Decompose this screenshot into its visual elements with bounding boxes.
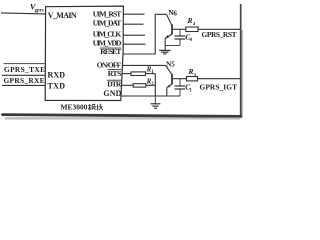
resistor R3 — [187, 77, 198, 81]
svg-text:UIM_RST: UIM_RST — [93, 10, 122, 19]
svg-text:V_MAIN: V_MAIN — [48, 11, 77, 20]
label R2 — [146, 77, 155, 87]
resistor R4 — [186, 27, 198, 32]
wire R4 to GPRS_RST — [198, 28, 241, 30]
ground (module GND) — [151, 96, 161, 108]
wire N6 base to R4 — [173, 28, 186, 30]
ground (N6 emitter) — [159, 50, 170, 54]
label R1 — [146, 66, 155, 76]
wire pulldown node vertical — [154, 74, 156, 96]
wire R2 to pulldown node — [146, 84, 156, 86]
wire R1 to base node — [146, 73, 156, 75]
svg-text:R: R — [187, 16, 193, 25]
wire overline GPRS_TXE — [4, 63, 46, 65]
wire V_gprs to module — [1, 13, 46, 14]
svg-text:R: R — [188, 67, 194, 76]
hanzi kuai (block) — [96, 104, 103, 111]
capacitor C4 — [165, 29, 185, 45]
svg-text:RXD: RXD — [48, 70, 66, 79]
svg-text:gprs: gprs — [35, 8, 44, 13]
transistor N5 — [166, 65, 173, 87]
label R3 — [188, 67, 197, 77]
svg-text:UIM_CLK: UIM_CLK — [93, 30, 122, 39]
wire RESET net to N6 collector — [123, 14, 167, 54]
wire GPRS_RXE to TXD — [2, 84, 45, 86]
wire DTR to R2 — [122, 84, 133, 86]
wire stub UIM_DAT — [123, 23, 143, 25]
svg-text:ME3000: ME3000 — [61, 102, 88, 111]
label N6 — [168, 8, 177, 17]
svg-text:RTS: RTS — [108, 69, 122, 78]
hanzi mo (module) — [88, 104, 96, 110]
wire stub UIM_VDD — [123, 43, 145, 45]
capacitor C1 — [175, 79, 186, 96]
label C1 — [185, 83, 192, 94]
wire RTS to R1 — [122, 73, 131, 75]
svg-text:GPRS_TXE: GPRS_TXE — [4, 65, 45, 74]
svg-text:5: 5 — [171, 61, 175, 69]
wire stub UIM_CLK — [123, 34, 145, 36]
transistor N6 — [165, 14, 172, 38]
svg-text:DTR: DTR — [107, 79, 122, 88]
node V_gprs label — [30, 2, 44, 14]
svg-text:GPRS_RXE: GPRS_RXE — [4, 76, 45, 85]
module box ME3000 U1 — [45, 6, 123, 100]
wire N5 emitter to gnd rail — [166, 87, 168, 96]
svg-text:GPRS_IGT: GPRS_IGT — [200, 83, 238, 92]
svg-text:GND: GND — [103, 89, 121, 98]
border shadow bottom — [3, 115, 242, 117]
wire N5 base to R3 — [173, 78, 187, 80]
label C4 — [185, 32, 192, 43]
resistor R2 — [133, 84, 146, 87]
label N5 — [166, 59, 175, 68]
svg-text:UIM_DAT: UIM_DAT — [93, 19, 122, 28]
label R4 — [187, 16, 196, 26]
wire ON/OFF net to N5 collector — [123, 64, 166, 66]
svg-text:TXD: TXD — [48, 81, 66, 90]
wire stub UIM_RST — [123, 13, 144, 15]
wire GPRS_TXE to RXD — [2, 74, 45, 76]
wire N6 emitter to ground — [164, 38, 166, 50]
wire GND rail — [121, 95, 180, 97]
resistor R1 — [131, 72, 146, 76]
svg-text:6: 6 — [173, 9, 177, 17]
label ME3000 module caption — [61, 102, 88, 111]
wire R3 to GPRS_IGT — [198, 78, 241, 80]
border shadow right — [240, 4, 242, 115]
svg-text:GPRS_RST: GPRS_RST — [202, 30, 237, 39]
